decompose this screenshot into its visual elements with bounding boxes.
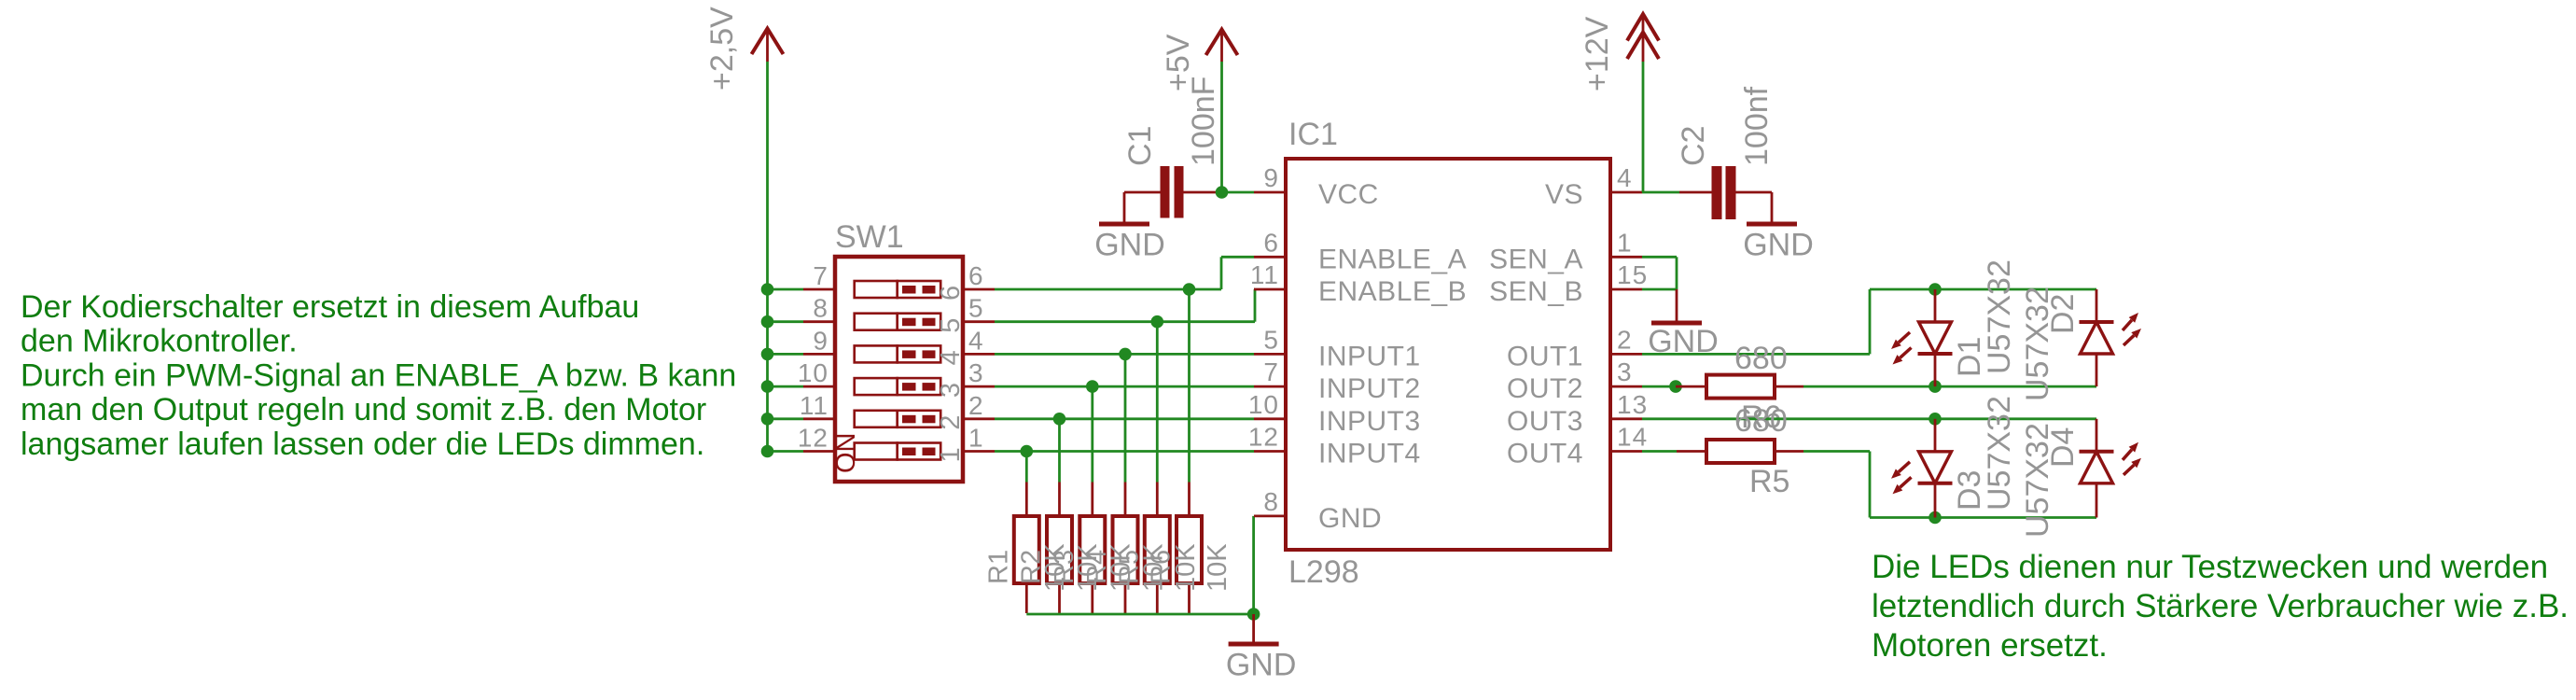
svg-text:2: 2: [968, 391, 984, 420]
svg-text:R6: R6: [1147, 550, 1177, 584]
pin 4 VS: [1610, 191, 1642, 194]
node junction OUT2/D1 bottom: [1929, 380, 1942, 393]
wire C1 to pin9: [1217, 191, 1254, 194]
switch SW1 pins left: [803, 288, 835, 291]
pin 7 INPUT2: [1254, 385, 1286, 388]
resistor R5 10K: [1156, 483, 1159, 517]
svg-text:ENABLE_B: ENABLE_B: [1318, 276, 1467, 307]
svg-text:SW1: SW1: [835, 219, 904, 255]
node junction +5V/C1/VCC: [1216, 186, 1229, 199]
svg-text:C2: C2: [1676, 126, 1711, 166]
svg-text:R1: R1: [983, 550, 1013, 584]
svg-text:R5: R5: [1114, 550, 1144, 584]
node junction rail/D3 bottom: [1929, 511, 1942, 525]
svg-text:7: 7: [813, 261, 828, 290]
LED D4 U57X32: [2096, 419, 2098, 452]
node junction OUT1/D1: [1929, 283, 1942, 296]
svg-text:L298: L298: [1288, 554, 1359, 590]
pin 14 OUT4: [1610, 450, 1642, 453]
svg-text:7: 7: [1263, 357, 1279, 386]
pin 9 VCC: [1254, 191, 1286, 194]
svg-text:2: 2: [936, 415, 966, 430]
switch SW1 pins right: [963, 288, 995, 291]
wire bus to SW1 pins: [768, 288, 804, 291]
svg-text:SEN_B: SEN_B: [1489, 276, 1583, 307]
svg-text:langsamer laufen lassen oder d: langsamer laufen lassen oder die LEDs di…: [21, 427, 704, 462]
svg-text:100nf: 100nf: [1739, 86, 1775, 166]
svg-text:Die LEDs dienen nur Testzwecke: Die LEDs dienen nur Testzwecken und werd…: [1872, 549, 2548, 585]
svg-text:IC1: IC1: [1288, 117, 1338, 152]
svg-text:INPUT2: INPUT2: [1318, 373, 1421, 404]
svg-text:Motoren ersetzt.: Motoren ersetzt.: [1872, 627, 2108, 664]
node junction switch2/R2col: [1053, 413, 1066, 426]
resistor R4 10K: [1124, 483, 1127, 517]
switch SW1 element 5: [855, 314, 898, 330]
svg-text:9: 9: [813, 326, 828, 355]
LED D3 arrows: [1899, 462, 1910, 472]
svg-text:OUT1: OUT1: [1507, 341, 1583, 371]
wire net switch2 to INPUT3: [995, 417, 1254, 420]
svg-text:OUT4: OUT4: [1507, 439, 1583, 469]
svg-text:8: 8: [813, 294, 828, 323]
capacitor C1 100nF: [1124, 191, 1161, 194]
svg-text:15: 15: [1617, 260, 1648, 289]
svg-text:OUT3: OUT3: [1507, 406, 1583, 437]
wire OUT3 net: [1642, 417, 2096, 420]
node junction OUT3/D3: [1929, 413, 1942, 426]
pin 2 OUT1: [1610, 353, 1642, 356]
svg-text:10K: 10K: [1203, 543, 1232, 592]
svg-text:R2: R2: [1017, 550, 1047, 584]
wire net switch1 to INPUT4: [995, 450, 1254, 453]
node junction rail/gnd: [1247, 608, 1260, 621]
resistor R6 10K: [1188, 483, 1191, 517]
svg-text:man den Output regeln und somi: man den Output regeln und somit z.B. den…: [21, 392, 706, 427]
svg-text:100nF: 100nF: [1186, 77, 1221, 166]
svg-text:OUT2: OUT2: [1507, 373, 1583, 404]
ground GND at SEN: [1676, 289, 1678, 321]
pin 3 OUT2: [1610, 385, 1642, 388]
svg-text:8: 8: [1263, 487, 1279, 516]
svg-text:ENABLE_A: ENABLE_A: [1318, 244, 1467, 274]
supply +5V arrow: [1206, 30, 1238, 56]
switch SW1 body: [835, 257, 963, 482]
svg-text:INPUT1: INPUT1: [1318, 341, 1421, 371]
pin 6 ENABLE_A: [1254, 256, 1286, 259]
wire OUT1 net: [1642, 353, 1870, 356]
svg-text:+12V: +12V: [1580, 16, 1615, 91]
svg-text:U57X32: U57X32: [1982, 259, 2017, 374]
svg-text:1: 1: [1617, 228, 1633, 257]
switch SW1 element 2: [855, 411, 898, 427]
ground GND under resistors: [1252, 614, 1255, 644]
pin 15 SEN_B: [1610, 288, 1642, 291]
svg-text:5: 5: [936, 318, 966, 333]
wire resistor bottom rail: [1026, 613, 1253, 616]
wire OUT4 net: [1642, 450, 1677, 453]
wire +2,5V bus: [766, 62, 769, 452]
wire +5V to VCC: [1220, 62, 1223, 192]
switch SW1 element 4: [855, 345, 898, 362]
svg-text:1: 1: [936, 447, 966, 462]
svg-text:VS: VS: [1545, 179, 1583, 210]
ground GND at C1: [1123, 192, 1126, 222]
resistor R5 680: [1677, 450, 1706, 453]
svg-text:GND: GND: [1094, 228, 1165, 263]
svg-text:12: 12: [798, 424, 828, 453]
supply +12V arrow: [1627, 14, 1659, 41]
svg-text:Der Kodierschalter ersetzt in: Der Kodierschalter ersetzt in diesem Auf…: [21, 289, 639, 325]
op-amp IC1 L298 body: [1286, 159, 1610, 550]
pin 8 GND: [1254, 515, 1286, 518]
pin 1 SEN_A: [1610, 256, 1642, 259]
wire net switch3 to INPUT2: [995, 385, 1254, 388]
resistor R6 680: [1676, 385, 1706, 388]
svg-text:letztendlich durch Stärkere Ve: letztendlich durch Stärkere Verbraucher …: [1872, 588, 2569, 624]
svg-text:4: 4: [936, 350, 966, 365]
wire R6 to LEDs: [1803, 385, 2096, 388]
svg-text:3: 3: [968, 358, 984, 387]
pin 11 ENABLE_B: [1254, 288, 1286, 291]
supply +2,5V arrow: [752, 29, 784, 55]
wire R5 to bottom rail: [1803, 450, 1870, 453]
svg-text:13: 13: [1617, 390, 1648, 419]
svg-text:C1: C1: [1122, 126, 1158, 166]
LED D2 arrows: [2123, 320, 2132, 330]
svg-text:11: 11: [1250, 260, 1279, 289]
svg-text:6: 6: [1263, 228, 1279, 257]
wire SEN_B net: [1642, 288, 1677, 291]
switch SW1 element 6: [855, 281, 898, 298]
svg-text:R3: R3: [1050, 550, 1079, 584]
wire net switch6 to ENABLE_A: [995, 288, 1221, 291]
wire net switch4 to INPUT1: [995, 353, 1254, 356]
LED D1 U57X32: [1934, 289, 1937, 322]
svg-text:VCC: VCC: [1318, 179, 1379, 210]
svg-text:GND: GND: [1743, 228, 1814, 263]
node junction switch5/R5col: [1151, 315, 1164, 329]
node junction switch3/R3col: [1086, 380, 1099, 393]
svg-text:D4: D4: [2045, 427, 2081, 468]
capacitor C2 100nf: [1679, 191, 1712, 194]
svg-text:4: 4: [968, 326, 984, 355]
svg-text:14: 14: [1617, 423, 1648, 452]
switch SW1 element 3: [855, 378, 898, 395]
svg-text:6: 6: [936, 286, 966, 301]
wire IC1 pin8 to rail: [1252, 516, 1255, 614]
svg-text:den Mikrokontroller.: den Mikrokontroller.: [21, 324, 298, 359]
node bus junctions: [761, 283, 774, 296]
svg-text:1: 1: [968, 424, 984, 453]
svg-text:680: 680: [1734, 403, 1788, 439]
node junction switch1/R1col: [1021, 445, 1034, 458]
svg-text:R4: R4: [1082, 550, 1112, 584]
node junction switch4/R4col: [1119, 348, 1132, 361]
svg-text:12: 12: [1248, 423, 1279, 452]
svg-text:10: 10: [1248, 390, 1279, 419]
svg-text:9: 9: [1263, 163, 1279, 192]
svg-text:2: 2: [1617, 325, 1633, 354]
svg-text:INPUT4: INPUT4: [1318, 439, 1421, 469]
pin 12 INPUT4: [1254, 450, 1286, 453]
svg-text:U57X32: U57X32: [1982, 396, 2017, 511]
pin 10 INPUT3: [1254, 417, 1286, 420]
wire pulldown columns: [1025, 452, 1028, 483]
pin 5 INPUT1: [1254, 353, 1286, 356]
svg-text:SEN_A: SEN_A: [1489, 244, 1583, 274]
svg-text:Durch ein PWM-Signal an ENABLE: Durch ein PWM-Signal an ENABLE_A bzw. B …: [21, 357, 736, 393]
wire SEN_A net: [1642, 256, 1677, 259]
wire +12V to VS: [1642, 62, 1645, 192]
svg-text:INPUT3: INPUT3: [1318, 406, 1421, 437]
svg-text:GND: GND: [1318, 503, 1382, 534]
svg-text:680: 680: [1734, 341, 1788, 376]
svg-text:+2,5V: +2,5V: [704, 7, 740, 91]
svg-text:3: 3: [1617, 357, 1633, 386]
svg-text:11: 11: [800, 391, 828, 420]
pin 13 OUT3: [1610, 417, 1642, 420]
svg-text:D2: D2: [2045, 294, 2081, 334]
svg-text:5: 5: [1263, 325, 1279, 354]
node junction switch6/R6col: [1183, 283, 1196, 296]
svg-text:5: 5: [968, 294, 984, 323]
LED D2 U57X32: [2096, 289, 2098, 322]
resistor R3 10K: [1091, 483, 1093, 517]
switch SW1 element 1: [855, 443, 898, 460]
svg-text:4: 4: [1617, 163, 1633, 192]
wire OUT2 net: [1642, 385, 1676, 388]
LED D4 arrows: [2123, 450, 2132, 460]
svg-text:3: 3: [936, 383, 966, 398]
svg-text:10: 10: [798, 358, 828, 387]
ground GND at C2: [1771, 192, 1774, 222]
LED D3 U57X32: [1934, 419, 1937, 452]
node junction OUT2/R6: [1669, 380, 1682, 393]
svg-text:R5: R5: [1749, 464, 1789, 499]
svg-text:6: 6: [968, 261, 984, 290]
wire net switch5 to ENABLE_B: [995, 320, 1255, 323]
resistor R1 10K: [1025, 483, 1028, 517]
LED D1 arrows: [1899, 332, 1910, 343]
svg-text:GND: GND: [1226, 648, 1297, 683]
resistor R2 10K: [1058, 483, 1061, 517]
